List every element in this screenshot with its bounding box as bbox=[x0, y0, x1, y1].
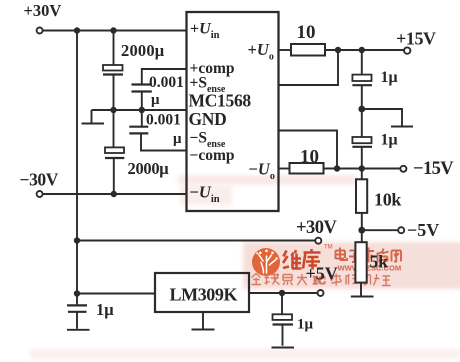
wire LM309K out bbox=[249, 292, 317, 294]
wire cap C6 bottom lead + ground bbox=[272, 325, 295, 348]
node rail/+30Vout bbox=[74, 237, 80, 243]
resistor R4 5k bbox=[355, 242, 366, 282]
wire 0.001 cap2 to -comp pin bbox=[141, 134, 187, 151]
wire 0.001 caps middle bbox=[141, 92, 143, 127]
svg-text:2000μ: 2000μ bbox=[128, 159, 170, 178]
wire mid junction to C4 bbox=[361, 109, 363, 137]
node gndbus/cap bbox=[110, 107, 116, 113]
svg-text:10k: 10k bbox=[374, 190, 401, 210]
node -5V bbox=[358, 227, 365, 234]
capacitor C3 1u bbox=[352, 75, 372, 86]
capacitor C4 1u bbox=[352, 137, 372, 147]
wire C3 to mid junction bbox=[361, 85, 363, 109]
node +5V/C6 bbox=[279, 290, 285, 296]
wire cap C6 top lead bbox=[281, 293, 283, 314]
watermark char 库 bbox=[303, 249, 321, 270]
terminal +30V out bbox=[315, 238, 321, 244]
wire 2000u cap1 bottom lead bbox=[113, 75, 115, 111]
watermark 全球最大IC采购网站 bbox=[252, 274, 391, 288]
resistor R2 10 bbox=[290, 163, 324, 174]
svg-text:μ: μ bbox=[151, 92, 160, 108]
watermark main pink band bbox=[243, 242, 460, 289]
wire +30V out bbox=[77, 240, 315, 242]
watermark logo circle bbox=[252, 248, 280, 276]
terminal -5V bbox=[398, 227, 404, 233]
wire 10k to -5V junction bbox=[361, 213, 363, 230]
svg-text:μ: μ bbox=[173, 131, 182, 147]
node -30V/cap2 bbox=[111, 191, 117, 197]
wire R1 to +15V terminal bbox=[325, 49, 404, 51]
node -Uo/sense bbox=[334, 165, 340, 171]
capacitor C2b 0.001u bottom bbox=[129, 127, 148, 134]
svg-text:2000μ: 2000μ bbox=[121, 41, 165, 60]
wire 2000u cap1 top lead bbox=[113, 31, 115, 66]
ground mid right bbox=[362, 109, 413, 127]
watermark pink patch behind -Uin bbox=[180, 185, 232, 205]
wire rail +30V vertical bbox=[76, 31, 78, 294]
wire +comp bbox=[142, 69, 187, 85]
wire -5V junction to terminal bbox=[362, 229, 399, 231]
wire +15V rail to cap C3 bbox=[361, 50, 363, 75]
terminal -30V in bbox=[37, 191, 43, 197]
svg-text:−15V: −15V bbox=[413, 159, 454, 179]
wire -Sense feedback bbox=[279, 131, 338, 169]
terminal +30V in bbox=[37, 28, 43, 34]
svg-text:+15V: +15V bbox=[396, 29, 436, 49]
svg-text:MC1568: MC1568 bbox=[189, 91, 252, 111]
svg-text:1μ: 1μ bbox=[381, 69, 398, 86]
wire 2000u cap2 top lead bbox=[113, 110, 115, 147]
svg-text:GND: GND bbox=[189, 109, 227, 129]
wire C4 to -15V rail bbox=[361, 147, 363, 169]
IC U1 MC1568 box bbox=[187, 12, 279, 211]
ground LM309K bbox=[192, 312, 215, 330]
wire junction to 5k bbox=[361, 230, 363, 242]
wire -30V bbox=[43, 193, 187, 195]
node +Uo/C3 bbox=[359, 47, 365, 53]
node -Uo/C4 bbox=[359, 165, 365, 171]
watermark faint bottom band bbox=[30, 349, 460, 359]
wire 2000u cap2 bottom lead bbox=[113, 158, 115, 194]
node gndbus/0.001 bbox=[139, 107, 145, 113]
wire R2 to -15V terminal bbox=[324, 168, 401, 170]
svg-text:+30V: +30V bbox=[296, 218, 338, 238]
svg-text:10: 10 bbox=[297, 22, 316, 43]
wire gnd bus bbox=[92, 109, 187, 111]
capacitor C6 1u bbox=[273, 314, 294, 324]
wire +Sense feedback bbox=[279, 50, 339, 85]
wire rail to LM309K bbox=[77, 293, 155, 295]
node rail/LM309K bbox=[74, 290, 80, 296]
terminal +5V out bbox=[318, 290, 324, 296]
wire -Uo to R2 bbox=[279, 168, 290, 170]
svg-text:+5V: +5V bbox=[306, 264, 338, 284]
svg-text:LM309K: LM309K bbox=[170, 285, 238, 305]
watermark 电子市场网 bbox=[336, 248, 402, 263]
node +Uo/sense bbox=[335, 47, 341, 53]
ground left bbox=[82, 110, 105, 124]
wire 5k to ground bbox=[351, 283, 374, 297]
svg-text:1μ: 1μ bbox=[96, 300, 114, 319]
capacitor C1b 2000u bottom bbox=[105, 147, 124, 158]
wire cap C5 top lead bbox=[76, 294, 78, 306]
watermark pink stripe behind -comp/-Uo row bbox=[178, 175, 356, 185]
node +30V/cap1 bbox=[110, 27, 116, 33]
wire -15V rail to 10k bbox=[361, 169, 363, 180]
svg-text:5k: 5k bbox=[370, 252, 389, 272]
svg-text:−5V: −5V bbox=[407, 220, 439, 240]
resistor R3 10k bbox=[356, 179, 367, 213]
wire +30V top bbox=[43, 30, 187, 32]
svg-text:10: 10 bbox=[300, 147, 319, 168]
terminal -15V bbox=[400, 166, 406, 172]
svg-text:−comp: −comp bbox=[190, 147, 235, 164]
capacitor C1 2000u top bbox=[103, 65, 123, 75]
svg-text:1μ: 1μ bbox=[297, 317, 314, 333]
IC U2 LM309K box bbox=[155, 273, 249, 312]
svg-text:1μ: 1μ bbox=[381, 132, 398, 149]
svg-text:0.001: 0.001 bbox=[146, 112, 181, 129]
capacitor C2 0.001u top bbox=[132, 85, 152, 92]
capacitor C5 1u bottom-left bbox=[67, 305, 87, 311]
svg-text:+30V: +30V bbox=[24, 1, 62, 20]
svg-text:TM: TM bbox=[324, 245, 333, 251]
wire cap C5 bottom lead + ground bbox=[67, 312, 90, 330]
node +30V/rail bbox=[74, 27, 80, 33]
watermark char 维 bbox=[283, 250, 302, 269]
wire +Uo to R1 bbox=[279, 49, 292, 51]
node mid ground bbox=[358, 106, 365, 113]
terminal +15V bbox=[404, 47, 410, 53]
svg-text:0.001: 0.001 bbox=[149, 74, 184, 91]
resistor R1 10 bbox=[291, 44, 325, 56]
svg-text:−30V: −30V bbox=[20, 170, 59, 190]
